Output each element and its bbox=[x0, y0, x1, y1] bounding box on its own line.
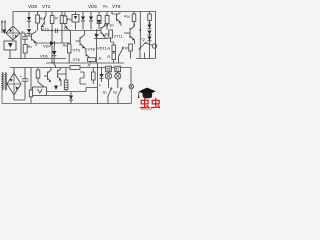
svg-text:Ra: Ra bbox=[67, 17, 72, 22]
step wires bbox=[80, 72, 86, 84]
wire step y91 bbox=[47, 88, 98, 92]
label green bbox=[106, 66, 112, 72]
AC plug terminals bbox=[1, 21, 6, 33]
svg-text:R: R bbox=[107, 54, 110, 59]
transistor VT3 bbox=[29, 31, 36, 47]
capacitor C3 horizontal bbox=[56, 29, 58, 34]
svg-text:VT3: VT3 bbox=[42, 27, 50, 32]
resistor Re horizontal bbox=[88, 47, 96, 62]
svg-text:R1: R1 bbox=[28, 44, 33, 49]
wire column x66 bbox=[65, 68, 67, 81]
svg-text:VT11: VT11 bbox=[114, 34, 124, 39]
resistor R10 bbox=[107, 53, 115, 63]
wire column x131 bbox=[130, 68, 132, 85]
svg-text:VT5: VT5 bbox=[73, 48, 81, 53]
svg-text:Q: Q bbox=[64, 26, 67, 31]
wire bottom bus bbox=[2, 103, 92, 105]
resistor R5 bbox=[29, 68, 33, 104]
svg-text:R: R bbox=[125, 46, 128, 51]
svg-text:Rb: Rb bbox=[105, 32, 110, 37]
diode VD9 bbox=[94, 34, 108, 39]
diode VD6b bbox=[52, 45, 56, 63]
wire column x96 bbox=[96, 30, 98, 64]
logo graduation cap bbox=[138, 88, 156, 99]
svg-text:VD8: VD8 bbox=[28, 4, 37, 9]
svg-text:Ra: Ra bbox=[63, 43, 68, 48]
wire stub x144 bbox=[144, 53, 146, 59]
wire transformer bottom bbox=[1, 90, 3, 104]
terminal lamp HL3 bbox=[129, 84, 134, 103]
resistor Rb4 bbox=[105, 12, 109, 30]
wire top bus bbox=[13, 11, 156, 13]
resistor Rb5 bbox=[105, 30, 114, 45]
wire bottom bus right bbox=[92, 103, 132, 105]
resistor Rg bbox=[148, 12, 152, 25]
wire mid horizontal y30 bbox=[42, 30, 97, 32]
wire column x140 bbox=[139, 12, 141, 50]
svg-text:VT8: VT8 bbox=[88, 47, 96, 52]
wire column x96 bottom bbox=[97, 63, 99, 104]
wire bottom rail left bbox=[8, 58, 66, 60]
transistor VT9 bbox=[112, 12, 121, 27]
diode VD15 bbox=[69, 92, 73, 104]
transistor VT10 bbox=[97, 23, 106, 39]
label red bbox=[115, 66, 121, 72]
wire rung bbox=[58, 73, 67, 75]
svg-text:VD4: VD4 bbox=[43, 44, 52, 49]
relay box KA bbox=[72, 12, 79, 30]
resistor Rf bbox=[125, 44, 132, 59]
svg-text:R: R bbox=[99, 56, 102, 61]
resistor Rb2 top bbox=[124, 12, 136, 27]
switch S3 bbox=[119, 47, 124, 63]
wire vbox out bbox=[47, 95, 71, 97]
resistor R1 bbox=[23, 44, 32, 59]
switch S2 bbox=[113, 88, 122, 104]
svg-text:R: R bbox=[88, 63, 91, 68]
fuse link bbox=[52, 62, 56, 68]
wire bridge2 bottom bbox=[14, 95, 25, 100]
voltmeter box V bbox=[33, 87, 47, 96]
diode arrow blob bbox=[54, 86, 58, 91]
wire column x52 bbox=[51, 24, 53, 64]
wire bottom top bus bbox=[10, 67, 131, 69]
lamp HL2 bbox=[115, 72, 121, 88]
resistor Rc bbox=[36, 12, 45, 31]
diode VD5 bbox=[27, 29, 31, 36]
svg-text:VT2: VT2 bbox=[42, 4, 51, 9]
diode VD12 bbox=[148, 25, 152, 29]
capacitor C1 bbox=[21, 29, 30, 44]
transistor VT6 bbox=[85, 48, 91, 64]
transistor VT2 bbox=[42, 12, 47, 31]
svg-text:VT9: VT9 bbox=[112, 4, 121, 9]
wire box to rail bbox=[9, 50, 11, 59]
terminal circle out1 bbox=[147, 43, 157, 48]
wire bottom rail right bbox=[136, 58, 156, 60]
svg-text:绿: 绿 bbox=[106, 66, 111, 72]
svg-text:VD6: VD6 bbox=[88, 4, 97, 9]
switch S1 bbox=[103, 88, 112, 104]
resistor Ra column x65 bbox=[63, 12, 72, 27]
bridge rectifier B1 bbox=[6, 26, 20, 40]
svg-text:红: 红 bbox=[115, 66, 120, 72]
transformer T2 bbox=[2, 73, 7, 91]
switch Q2 bbox=[139, 42, 147, 58]
resistor Rb3 bbox=[97, 12, 101, 30]
svg-text:www.cc: www.cc bbox=[141, 107, 152, 110]
svg-text:VT10: VT10 bbox=[104, 23, 114, 28]
bridge rectifier B2 bbox=[7, 73, 21, 95]
resistor R7 series bbox=[70, 66, 80, 70]
diode VD16 bbox=[99, 68, 104, 88]
box V1 with diode bbox=[4, 41, 16, 50]
resistor R2 bbox=[50, 12, 58, 24]
resistor R7v hatched bbox=[64, 80, 68, 92]
transistor VT7 bbox=[44, 68, 51, 83]
logo text chongchong bbox=[140, 97, 162, 110]
transistor VT5 bbox=[76, 31, 85, 49]
diode VD4 bbox=[43, 41, 55, 49]
resistor R3 bbox=[60, 12, 68, 44]
svg-text:Rc: Rc bbox=[40, 16, 45, 21]
wire node column x21 bbox=[20, 33, 22, 59]
svg-text:虫: 虫 bbox=[151, 97, 161, 110]
switch Q1 bbox=[64, 26, 71, 44]
svg-text:R: R bbox=[55, 16, 58, 21]
capacitor C2 bbox=[20, 68, 28, 100]
wire right edge bbox=[155, 12, 157, 59]
transistor VT7b bbox=[58, 68, 62, 87]
transistor VT11 body bbox=[124, 24, 135, 45]
diode VD2 bbox=[81, 12, 85, 30]
resistor Ra2 bbox=[63, 43, 72, 64]
wire bridge out to C1 bbox=[21, 32, 25, 34]
diode VD6 bbox=[89, 12, 93, 30]
diode VD8 bbox=[27, 12, 31, 29]
svg-text:S1: S1 bbox=[103, 90, 108, 95]
svg-text:Rb: Rb bbox=[103, 4, 108, 9]
svg-text:Rb2: Rb2 bbox=[124, 14, 131, 19]
svg-text:VT6: VT6 bbox=[73, 57, 81, 62]
resistor R6 bbox=[36, 68, 44, 88]
svg-text:R: R bbox=[107, 46, 110, 51]
diode VD14 bbox=[148, 37, 152, 59]
wire mid rail bbox=[46, 62, 124, 64]
svg-text:VD11: VD11 bbox=[97, 46, 107, 51]
diode VD1 left bbox=[2, 30, 6, 35]
wire VD4 row bbox=[36, 42, 71, 44]
diode VD13 bbox=[148, 31, 152, 42]
resistor R9 bbox=[107, 45, 115, 53]
resistor R8 bbox=[88, 63, 96, 85]
wire top-left corner drop bbox=[12, 12, 14, 26]
svg-text:S2: S2 bbox=[113, 90, 118, 95]
lamp HL1 bbox=[105, 72, 111, 88]
svg-text:Q: Q bbox=[142, 37, 145, 42]
svg-text:VD6: VD6 bbox=[40, 54, 49, 59]
wire bridge2 top bbox=[13, 68, 15, 74]
